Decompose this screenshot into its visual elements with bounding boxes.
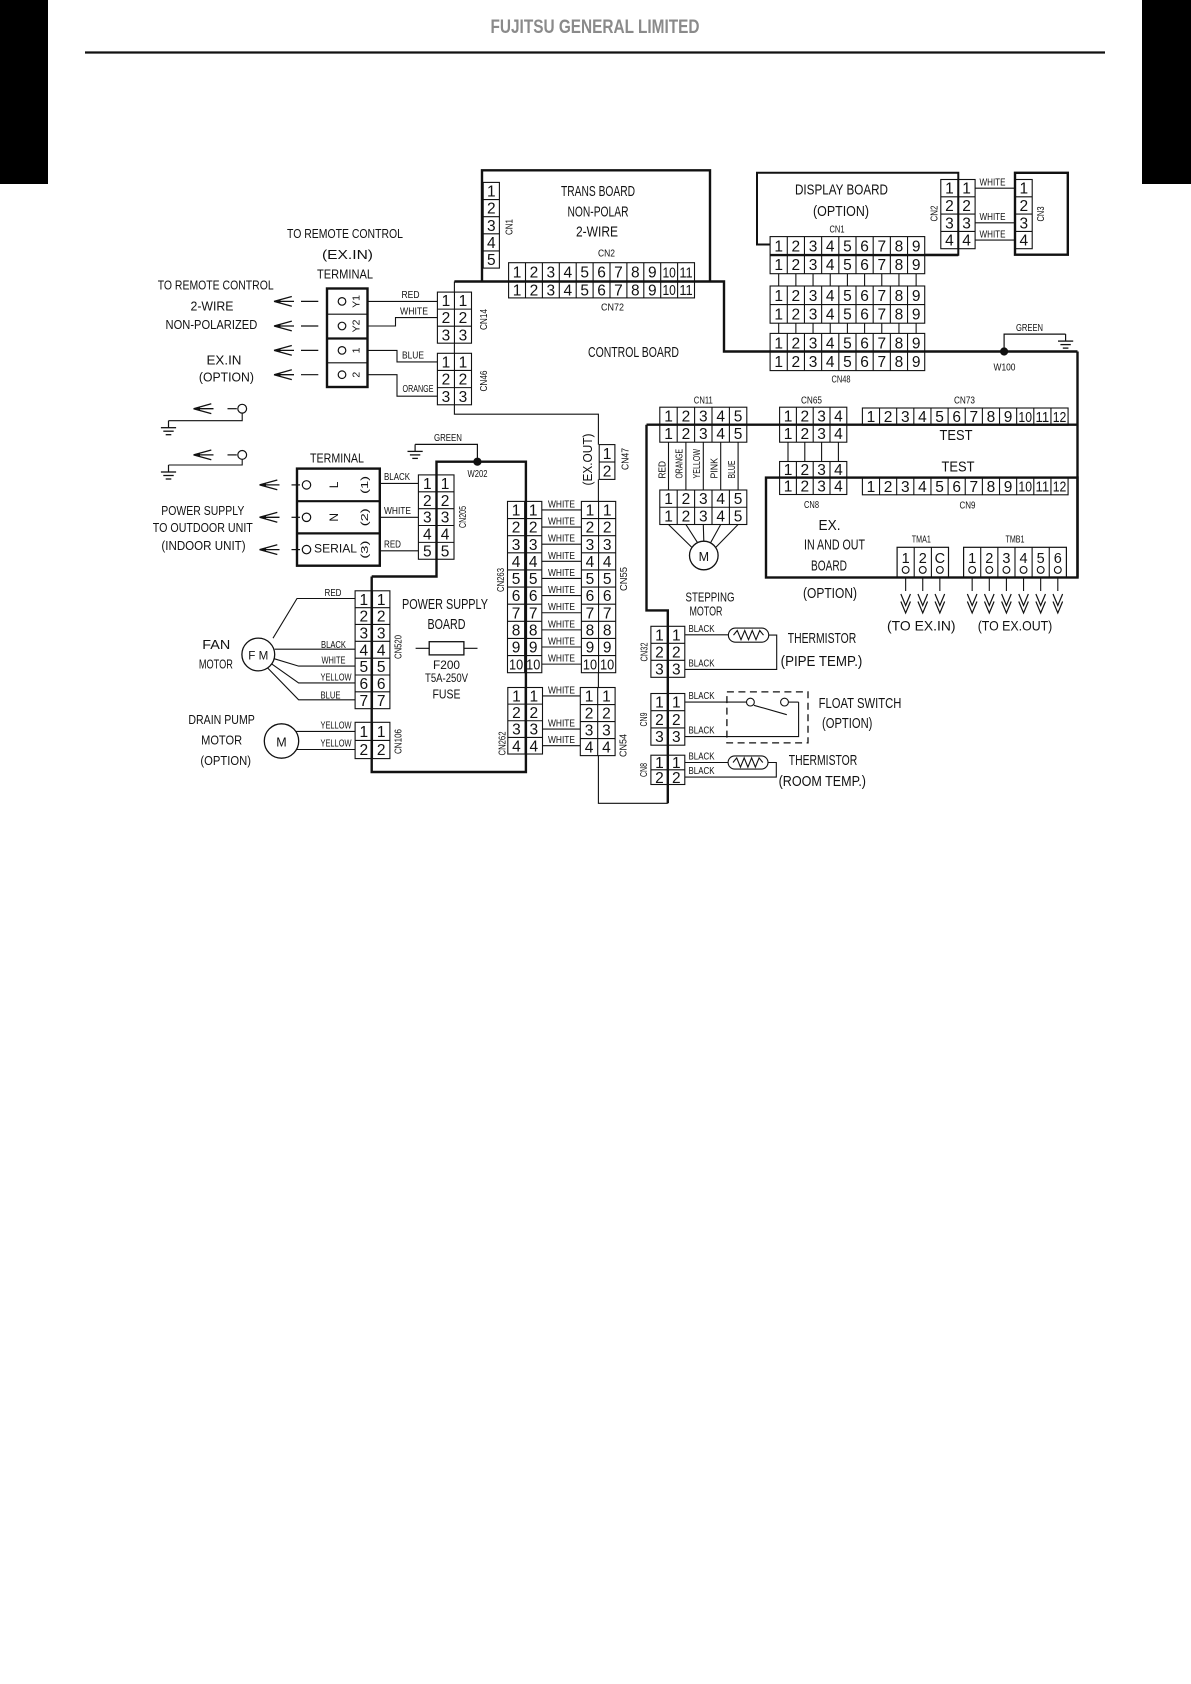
svg-text:4: 4 bbox=[512, 738, 521, 755]
svg-text:PINK: PINK bbox=[709, 458, 721, 479]
svg-text:POWER SUPPLY: POWER SUPPLY bbox=[402, 597, 488, 613]
svg-text:3: 3 bbox=[442, 389, 451, 406]
svg-text:CN106: CN106 bbox=[393, 729, 405, 754]
arrow ex.in 1 bbox=[274, 346, 294, 356]
svg-text:5: 5 bbox=[423, 543, 432, 560]
svg-text:3: 3 bbox=[603, 537, 612, 554]
arrow ex.in 2 bbox=[274, 370, 294, 380]
svg-text:2: 2 bbox=[985, 551, 993, 567]
svg-text:2: 2 bbox=[792, 354, 801, 371]
wire EX.OUT bus CN47 to CN55/CN54 bbox=[597, 479, 599, 501]
svg-text:CN1: CN1 bbox=[830, 224, 845, 236]
svg-text:IN AND OUT: IN AND OUT bbox=[804, 538, 865, 554]
terminal circle upper stub bbox=[238, 404, 247, 413]
arrow to remote control Y1 bbox=[274, 297, 294, 307]
svg-text:2: 2 bbox=[672, 770, 681, 787]
svg-text:WHITE: WHITE bbox=[548, 684, 575, 696]
svg-text:5: 5 bbox=[529, 571, 538, 588]
svg-text:1: 1 bbox=[513, 265, 522, 282]
svg-text:CN263: CN263 bbox=[495, 568, 507, 592]
svg-text:WHITE: WHITE bbox=[548, 584, 575, 596]
svg-text:Y2: Y2 bbox=[351, 319, 363, 332]
svg-text:1: 1 bbox=[441, 476, 450, 493]
svg-text:2: 2 bbox=[512, 705, 521, 722]
connector CN8 (4 pins two rows) bbox=[780, 462, 847, 496]
svg-text:1: 1 bbox=[945, 181, 954, 198]
svg-text:CN8: CN8 bbox=[804, 499, 819, 511]
svg-text:3: 3 bbox=[809, 238, 818, 255]
wire BLACK CN8-1 to room thermistor bbox=[685, 762, 728, 764]
svg-text:9: 9 bbox=[586, 640, 595, 657]
svg-text:9: 9 bbox=[912, 306, 921, 323]
svg-text:WHITE: WHITE bbox=[548, 498, 575, 510]
connector CN46 (3 pins) bbox=[437, 353, 471, 405]
connector CN2 (display board right, 4 pins) bbox=[941, 180, 975, 250]
svg-text:1: 1 bbox=[423, 476, 432, 493]
svg-text:3: 3 bbox=[809, 306, 818, 323]
control board boundary: CN73/CN11 horizontal line bbox=[647, 424, 1078, 426]
svg-text:2: 2 bbox=[602, 706, 611, 723]
svg-text:6: 6 bbox=[359, 676, 368, 693]
svg-text:BOARD: BOARD bbox=[428, 617, 466, 633]
connector CN205 (5 pins) bbox=[418, 475, 454, 560]
svg-text:2: 2 bbox=[530, 705, 539, 722]
svg-text:3: 3 bbox=[442, 327, 451, 344]
svg-text:BLACK: BLACK bbox=[689, 623, 715, 635]
svg-text:6: 6 bbox=[952, 479, 961, 496]
svg-text:TMA1: TMA1 bbox=[912, 533, 931, 545]
pipe thermistor element bbox=[728, 628, 768, 642]
svg-text:2: 2 bbox=[603, 520, 612, 537]
display board bottom edge through CN1 connector bbox=[770, 254, 958, 256]
text POWER SUPPLY BOARD bbox=[402, 597, 488, 633]
svg-text:SERIAL: SERIAL bbox=[314, 542, 357, 556]
svg-text:7: 7 bbox=[969, 409, 978, 426]
wire GREEN from W100 to chassis ground bbox=[1004, 334, 1066, 351]
svg-text:5: 5 bbox=[734, 491, 743, 508]
wire BLUE 1 to CN46-1 bbox=[368, 350, 438, 362]
wire ORANGE 2 to CN46-3 bbox=[368, 375, 438, 397]
svg-text:(OPTION): (OPTION) bbox=[803, 586, 857, 602]
svg-text:4: 4 bbox=[716, 508, 725, 525]
svg-text:CN72: CN72 bbox=[601, 302, 624, 314]
svg-text:(3): (3) bbox=[359, 541, 371, 559]
svg-text:3: 3 bbox=[585, 723, 594, 740]
svg-text:1: 1 bbox=[774, 354, 783, 371]
svg-text:4: 4 bbox=[423, 527, 432, 544]
svg-text:5: 5 bbox=[734, 508, 743, 525]
svg-text:F200: F200 bbox=[433, 660, 460, 672]
svg-text:FUJITSU GENERAL LIMITED: FUJITSU GENERAL LIMITED bbox=[491, 16, 700, 38]
svg-text:YELLOW: YELLOW bbox=[321, 738, 352, 750]
svg-text:2: 2 bbox=[442, 372, 451, 389]
svg-text:RED: RED bbox=[656, 461, 668, 479]
svg-text:4: 4 bbox=[377, 642, 386, 659]
svg-text:CN2: CN2 bbox=[929, 205, 941, 221]
svg-text:3: 3 bbox=[901, 479, 910, 496]
svg-text:9: 9 bbox=[512, 640, 521, 657]
svg-text:7: 7 bbox=[614, 282, 623, 299]
svg-text:9: 9 bbox=[912, 354, 921, 371]
svg-text:WHITE: WHITE bbox=[980, 211, 1006, 223]
svg-text:3: 3 bbox=[586, 537, 595, 554]
svg-text:3: 3 bbox=[359, 625, 368, 642]
connector CN2/CN72 (11 pins, two rows) bbox=[509, 263, 695, 300]
svg-text:2: 2 bbox=[884, 409, 893, 426]
wire return room thermistor to CN8-2 bbox=[685, 763, 777, 778]
svg-text:1: 1 bbox=[784, 479, 793, 496]
svg-text:FLOAT SWITCH: FLOAT SWITCH bbox=[819, 696, 902, 712]
svg-text:WHITE: WHITE bbox=[400, 306, 428, 318]
svg-text:11: 11 bbox=[679, 265, 692, 281]
wires CN11 to stepping motor connector (RED ORANGE YELLOW PINK BLUE) bbox=[656, 442, 738, 490]
svg-text:(OPTION): (OPTION) bbox=[813, 204, 869, 220]
svg-text:WHITE: WHITE bbox=[384, 505, 411, 517]
svg-text:BLACK: BLACK bbox=[689, 657, 715, 669]
svg-text:ORANGE: ORANGE bbox=[674, 449, 686, 479]
svg-text:T5A-250V: T5A-250V bbox=[425, 673, 468, 685]
svg-text:3: 3 bbox=[602, 723, 611, 740]
connector CN1 (display board, 9 pins two rows) bbox=[770, 237, 925, 274]
svg-text:2: 2 bbox=[377, 609, 386, 626]
svg-text:1: 1 bbox=[459, 354, 468, 371]
svg-text:7: 7 bbox=[877, 288, 886, 305]
svg-text:GREEN: GREEN bbox=[434, 432, 462, 444]
svg-text:STEPPING: STEPPING bbox=[686, 590, 735, 605]
svg-text:NON-POLARIZED: NON-POLARIZED bbox=[166, 317, 258, 332]
page header: right black sidebar bbox=[1142, 0, 1191, 184]
wires fan-out to stepping motor bbox=[669, 525, 739, 548]
svg-text:3: 3 bbox=[377, 625, 386, 642]
svg-text:4: 4 bbox=[826, 306, 835, 323]
svg-text:WHITE: WHITE bbox=[322, 655, 346, 667]
svg-text:1: 1 bbox=[774, 335, 783, 352]
wire WHITE fan to CN520-5 bbox=[274, 659, 355, 666]
control board boundary: trans board to CN48 line bbox=[710, 282, 1078, 352]
svg-text:CN14: CN14 bbox=[478, 309, 490, 330]
svg-text:M: M bbox=[276, 736, 286, 750]
svg-text:4: 4 bbox=[1019, 233, 1028, 250]
svg-text:5: 5 bbox=[580, 282, 589, 299]
remote terminal block (Y1 Y2 1 2) bbox=[327, 289, 368, 388]
svg-text:5: 5 bbox=[843, 335, 852, 352]
svg-text:2: 2 bbox=[792, 257, 801, 274]
svg-text:2: 2 bbox=[655, 644, 664, 661]
arrow power L bbox=[260, 480, 280, 490]
svg-text:2: 2 bbox=[792, 288, 801, 305]
svg-text:M: M bbox=[699, 550, 709, 564]
svg-text:N: N bbox=[327, 513, 341, 522]
svg-text:4: 4 bbox=[1020, 551, 1028, 567]
svg-text:RED: RED bbox=[384, 539, 401, 551]
connector CN65 (4 pins two rows) bbox=[780, 407, 847, 443]
svg-text:3: 3 bbox=[459, 389, 468, 406]
svg-text:9: 9 bbox=[648, 265, 657, 282]
svg-text:8: 8 bbox=[529, 622, 538, 639]
svg-text:1: 1 bbox=[529, 503, 538, 520]
svg-text:TERMINAL: TERMINAL bbox=[317, 267, 373, 282]
wire WHITE CN262-3 to CN54-3 bbox=[543, 728, 581, 730]
svg-text:WHITE: WHITE bbox=[548, 636, 575, 648]
svg-text:2: 2 bbox=[1019, 198, 1028, 215]
wire lower stub to ground bbox=[169, 459, 243, 465]
connector CN1 (trans board, pins 1-5) bbox=[483, 182, 499, 269]
svg-text:10: 10 bbox=[662, 283, 675, 299]
wire RED Y1 to CN14-1 bbox=[368, 300, 438, 302]
svg-text:1: 1 bbox=[487, 184, 496, 201]
terminal TMA1 (1 2 C) bbox=[897, 547, 948, 577]
svg-text:3: 3 bbox=[809, 354, 818, 371]
svg-text:MOTOR: MOTOR bbox=[201, 733, 242, 748]
svg-text:1: 1 bbox=[359, 592, 368, 609]
connector CN73 (12 pins) bbox=[862, 408, 1068, 426]
svg-text:1: 1 bbox=[351, 347, 363, 353]
svg-text:2: 2 bbox=[672, 644, 681, 661]
svg-text:CN32: CN32 bbox=[640, 642, 651, 661]
svg-text:5: 5 bbox=[935, 409, 944, 426]
junction W202 dot bbox=[474, 458, 481, 465]
svg-text:1: 1 bbox=[664, 426, 673, 443]
svg-text:8: 8 bbox=[631, 282, 640, 299]
svg-text:3: 3 bbox=[1019, 215, 1028, 232]
board box around CN3 bbox=[1015, 173, 1068, 255]
board box: TRANS BOARD bbox=[482, 170, 710, 281]
svg-text:(INDOOR UNIT): (INDOOR UNIT) bbox=[161, 538, 245, 553]
svg-text:TO REMOTE CONTROL: TO REMOTE CONTROL bbox=[287, 226, 403, 241]
svg-text:(2): (2) bbox=[359, 508, 371, 526]
svg-text:10: 10 bbox=[526, 657, 540, 673]
svg-text:3: 3 bbox=[547, 282, 556, 299]
svg-text:6: 6 bbox=[597, 282, 606, 299]
svg-text:WHITE: WHITE bbox=[980, 177, 1006, 189]
svg-text:7: 7 bbox=[512, 605, 521, 622]
svg-text:3: 3 bbox=[817, 409, 826, 426]
svg-text:2: 2 bbox=[800, 409, 809, 426]
connector CN520 (7 pins) bbox=[355, 591, 390, 710]
wires and arrows TMB1 to EX.OUT bbox=[967, 578, 1062, 614]
terminal circle lower stub bbox=[238, 451, 247, 460]
arrow to remote control Y2 bbox=[274, 321, 294, 331]
svg-text:7: 7 bbox=[359, 693, 368, 710]
svg-text:BLACK: BLACK bbox=[689, 751, 715, 763]
svg-text:THERMISTOR: THERMISTOR bbox=[789, 753, 858, 769]
svg-text:(OPTION): (OPTION) bbox=[199, 370, 254, 385]
svg-text:BLUE: BLUE bbox=[726, 461, 738, 479]
svg-text:5: 5 bbox=[487, 252, 496, 269]
svg-text:4: 4 bbox=[826, 335, 835, 352]
svg-text:EX.: EX. bbox=[819, 518, 841, 534]
svg-text:5: 5 bbox=[935, 479, 944, 496]
svg-text:1: 1 bbox=[359, 724, 368, 741]
svg-text:3: 3 bbox=[530, 722, 539, 739]
svg-text:1: 1 bbox=[585, 689, 594, 706]
svg-text:1: 1 bbox=[784, 409, 793, 426]
svg-text:7: 7 bbox=[586, 605, 595, 622]
text EX. IN AND OUT BOARD bbox=[804, 518, 865, 575]
junction W100 dot bbox=[1001, 348, 1008, 355]
svg-text:1: 1 bbox=[968, 551, 976, 567]
svg-text:3: 3 bbox=[512, 722, 521, 739]
svg-text:8: 8 bbox=[895, 288, 904, 305]
svg-text:6: 6 bbox=[512, 588, 521, 605]
svg-text:5: 5 bbox=[580, 265, 589, 282]
ground symbol upper stub bbox=[168, 421, 170, 428]
svg-text:12: 12 bbox=[1053, 479, 1067, 495]
svg-text:WHITE: WHITE bbox=[548, 550, 575, 562]
control board boundary: left edge down past CN32/CN9/CN8 bbox=[647, 425, 668, 804]
svg-text:3: 3 bbox=[655, 661, 664, 678]
svg-text:YELLOW: YELLOW bbox=[691, 449, 703, 479]
connector CN8 (room thermistor, 2 pins) bbox=[651, 755, 685, 787]
svg-text:9: 9 bbox=[648, 282, 657, 299]
svg-text:3: 3 bbox=[672, 729, 681, 746]
svg-text:DRAIN PUMP: DRAIN PUMP bbox=[188, 712, 255, 727]
svg-text:4: 4 bbox=[918, 479, 927, 496]
svg-text:5: 5 bbox=[734, 426, 743, 443]
svg-text:RED: RED bbox=[402, 289, 420, 301]
svg-text:1: 1 bbox=[512, 688, 521, 705]
svg-text:1: 1 bbox=[962, 181, 971, 198]
svg-text:5: 5 bbox=[441, 543, 450, 560]
board box: EX. IN AND OUT BOARD bbox=[766, 478, 1078, 578]
svg-text:1: 1 bbox=[459, 293, 468, 310]
svg-text:1: 1 bbox=[603, 503, 612, 520]
svg-text:5: 5 bbox=[377, 659, 386, 676]
svg-text:YELLOW: YELLOW bbox=[321, 720, 352, 732]
svg-text:CN3: CN3 bbox=[1035, 206, 1047, 221]
svg-text:1: 1 bbox=[774, 288, 783, 305]
wire return pipe thermistor to CN32-3 bbox=[685, 635, 777, 669]
svg-text:3: 3 bbox=[817, 426, 826, 443]
svg-text:1: 1 bbox=[512, 503, 521, 520]
svg-text:2: 2 bbox=[487, 201, 496, 218]
svg-text:GREEN: GREEN bbox=[1016, 322, 1043, 334]
wire GREEN W202 to ground bbox=[415, 444, 477, 458]
connector CN47 (2 pins) bbox=[599, 445, 615, 481]
svg-text:3: 3 bbox=[699, 491, 708, 508]
svg-text:1: 1 bbox=[377, 724, 386, 741]
text THERMISTOR (PIPE TEMP.) bbox=[781, 631, 863, 670]
control board boundary: right edge down to EX board bbox=[1076, 352, 1078, 578]
svg-text:TRANS BOARD: TRANS BOARD bbox=[561, 183, 635, 200]
arrow power SERIAL bbox=[260, 545, 280, 555]
svg-text:CN54: CN54 bbox=[618, 734, 630, 757]
wires WHITE CN263 to CN55 (10) bbox=[542, 498, 582, 664]
wire CN54 bottom to control board edge bbox=[598, 756, 667, 804]
svg-text:1: 1 bbox=[784, 426, 793, 443]
svg-text:6: 6 bbox=[529, 588, 538, 605]
connector CN32 (3 pins) bbox=[651, 626, 685, 678]
text STEPPING MOTOR bbox=[686, 590, 735, 619]
terminal TMB1 (1-6) bbox=[964, 547, 1067, 577]
svg-text:CN11: CN11 bbox=[694, 395, 713, 407]
wire bus from trans board edge through CN14/CN46 bbox=[453, 282, 455, 293]
svg-text:BLACK: BLACK bbox=[321, 639, 346, 651]
svg-text:6: 6 bbox=[860, 288, 869, 305]
ground symbol W202 bbox=[414, 444, 416, 451]
svg-text:L: L bbox=[327, 481, 341, 488]
svg-text:WHITE: WHITE bbox=[548, 718, 575, 730]
svg-text:1: 1 bbox=[867, 409, 876, 426]
svg-text:(EX.IN): (EX.IN) bbox=[322, 247, 373, 262]
svg-text:4: 4 bbox=[962, 233, 971, 250]
svg-text:2: 2 bbox=[377, 742, 386, 759]
svg-text:WHITE: WHITE bbox=[980, 229, 1006, 241]
svg-text:4: 4 bbox=[359, 642, 368, 659]
float switch dashed box bbox=[727, 692, 808, 743]
svg-text:2: 2 bbox=[459, 310, 468, 327]
text FLOAT SWITCH (OPTION) bbox=[819, 696, 902, 732]
svg-text:TERMINAL: TERMINAL bbox=[310, 451, 364, 466]
svg-text:7: 7 bbox=[969, 479, 978, 496]
svg-text:2: 2 bbox=[442, 310, 451, 327]
svg-text:3: 3 bbox=[699, 409, 708, 426]
svg-text:10: 10 bbox=[1018, 479, 1032, 495]
svg-text:BLACK: BLACK bbox=[384, 471, 410, 483]
room thermistor element bbox=[728, 756, 768, 769]
svg-text:4: 4 bbox=[834, 409, 843, 426]
wire CN46 to EX.OUT channel bbox=[454, 405, 598, 445]
connector CN9 (12 pins) bbox=[862, 478, 1068, 496]
svg-text:5: 5 bbox=[843, 306, 852, 323]
svg-text:2-WIRE: 2-WIRE bbox=[191, 299, 234, 314]
svg-text:(TO EX.IN): (TO EX.IN) bbox=[887, 618, 956, 634]
svg-text:2: 2 bbox=[351, 372, 363, 378]
text DRAIN PUMP MOTOR (OPTION) bbox=[188, 712, 255, 768]
svg-text:6: 6 bbox=[860, 335, 869, 352]
svg-text:FUSE: FUSE bbox=[433, 687, 461, 702]
wire WHITE CN2-4 to CN3-4 bbox=[975, 239, 1015, 241]
svg-text:4: 4 bbox=[945, 233, 954, 250]
svg-text:8: 8 bbox=[512, 622, 521, 639]
svg-text:5: 5 bbox=[734, 409, 743, 426]
svg-text:(ROOM TEMP.): (ROOM TEMP.) bbox=[779, 774, 866, 790]
svg-text:DISPLAY BOARD: DISPLAY BOARD bbox=[795, 183, 888, 199]
stepping motor circle M bbox=[690, 541, 719, 570]
text TRANS BOARD NON-POLAR 2-WIRE bbox=[561, 183, 635, 241]
svg-text:1: 1 bbox=[664, 409, 673, 426]
svg-text:5: 5 bbox=[1037, 551, 1045, 567]
svg-text:7: 7 bbox=[877, 306, 886, 323]
svg-text:7: 7 bbox=[603, 605, 612, 622]
svg-text:2: 2 bbox=[529, 520, 538, 537]
svg-text:8: 8 bbox=[895, 354, 904, 371]
svg-text:CONTROL BOARD: CONTROL BOARD bbox=[588, 344, 679, 361]
connector CN14 (3 pins) bbox=[437, 292, 471, 344]
svg-text:3: 3 bbox=[672, 661, 681, 678]
svg-text:W100: W100 bbox=[994, 362, 1016, 374]
svg-text:2: 2 bbox=[441, 493, 450, 510]
svg-text:1: 1 bbox=[664, 491, 673, 508]
ground symbol (W100) bbox=[1065, 334, 1067, 341]
svg-text:2: 2 bbox=[655, 770, 664, 787]
svg-text:9: 9 bbox=[912, 238, 921, 255]
svg-text:9: 9 bbox=[912, 288, 921, 305]
svg-text:2: 2 bbox=[800, 426, 809, 443]
svg-text:5: 5 bbox=[586, 571, 595, 588]
svg-text:4: 4 bbox=[603, 554, 612, 571]
svg-text:2: 2 bbox=[682, 426, 691, 443]
svg-text:9: 9 bbox=[912, 257, 921, 274]
svg-text:2: 2 bbox=[919, 551, 927, 567]
svg-text:2: 2 bbox=[672, 712, 681, 729]
svg-text:WHITE: WHITE bbox=[548, 567, 575, 579]
svg-text:4: 4 bbox=[826, 257, 835, 274]
svg-text:2: 2 bbox=[586, 520, 595, 537]
fan motor circle FM bbox=[242, 638, 275, 671]
svg-text:4: 4 bbox=[487, 235, 496, 252]
svg-text:11: 11 bbox=[679, 283, 692, 299]
